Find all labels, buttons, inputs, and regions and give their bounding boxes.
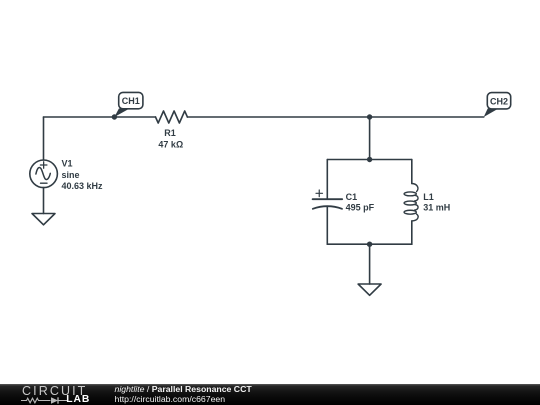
wire: loop left upper (to C1) — [326, 160, 328, 200]
node dot CH1 — [112, 114, 117, 119]
svg-text:sine: sine — [62, 170, 80, 180]
V1 minus sign — [41, 182, 48, 184]
svg-text:CH1: CH1 — [122, 96, 140, 106]
wire: V1 to ground — [43, 188, 45, 214]
C1 plus sign — [316, 190, 323, 197]
CircuitLab logo squiggle (resistor + diode) — [21, 396, 69, 405]
CH1 pointer flag — [114, 109, 129, 118]
svg-text:V1: V1 — [62, 158, 73, 168]
svg-text:495 pF: 495 pF — [346, 203, 375, 213]
inductor L1 coil — [404, 184, 418, 221]
junction node loop top — [367, 157, 372, 162]
svg-text:CH2: CH2 — [490, 96, 508, 106]
svg-text:40.63 kHz: 40.63 kHz — [62, 181, 104, 191]
wire: loop right upper (to L1) — [411, 160, 413, 184]
ground (V1) — [32, 214, 55, 225]
ground (loop) — [358, 284, 381, 295]
voltage source V1 circle — [30, 160, 58, 188]
svg-text:C1: C1 — [346, 192, 358, 202]
CircuitLab logo LAB — [66, 395, 90, 405]
footer text — [115, 384, 252, 404]
wire: C1 to loop bottom — [326, 207, 328, 244]
svg-text:47 kΩ: 47 kΩ — [158, 140, 183, 150]
CircuitLab logo wordmark CIRCUIT — [22, 385, 87, 397]
wire: top horizontal from corner to R1 — [44, 116, 156, 118]
svg-text:31 mH: 31 mH — [423, 203, 450, 213]
svg-text:R1: R1 — [164, 128, 176, 138]
wire: loop top side — [327, 159, 412, 161]
footer bar — [0, 384, 540, 405]
CH2 pointer flag — [484, 109, 499, 118]
wire: left vertical from top corner to V1 — [43, 117, 45, 160]
capacitor C1 top plate — [313, 198, 343, 200]
svg-text:L1: L1 — [423, 192, 434, 202]
resistor R1 — [156, 111, 188, 123]
CH1 probe box — [119, 92, 143, 108]
wire: loop bottom side — [327, 243, 412, 245]
wire: loop bottom to ground — [369, 244, 371, 284]
junction node loop bottom — [367, 242, 372, 247]
wire: junction down to loop top — [369, 117, 371, 160]
V1 sine wave — [36, 167, 50, 179]
wire: R1 to CH2 end — [187, 116, 483, 118]
V1 plus sign — [40, 162, 47, 168]
CH2 probe box — [487, 93, 510, 109]
capacitor C1 curved plate — [313, 206, 342, 209]
junction node on main wire — [367, 114, 372, 119]
wire: L1 to loop bottom — [411, 221, 413, 244]
